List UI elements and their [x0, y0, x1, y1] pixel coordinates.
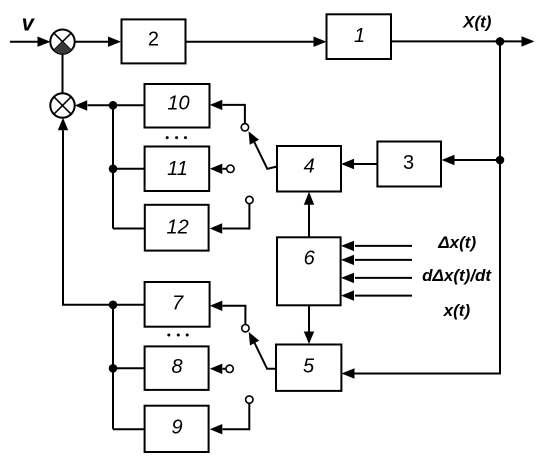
- node label delta x(t): [437, 233, 476, 252]
- wire bus to block 9 input: [113, 428, 145, 430]
- wire block 6 to block 5: [304, 305, 314, 344]
- switch arm from block 5: [249, 332, 276, 369]
- switch contact for block 10: [241, 124, 248, 131]
- wire input 2 to block 6: [341, 255, 412, 265]
- svg-text:Δx(t): Δx(t): [437, 233, 476, 252]
- wire block 8 output to bus: [113, 367, 145, 369]
- wire input 1 to block 6: [341, 241, 412, 251]
- summing junction S2: [50, 93, 74, 117]
- switch contact for block 9: [246, 396, 253, 403]
- ellipsis between block 10 and 11: [166, 136, 187, 139]
- wire right vertical feedback upper: [499, 41, 501, 160]
- svg-text:12: 12: [166, 217, 188, 239]
- svg-text:v: v: [22, 11, 36, 36]
- block 4: [277, 146, 341, 192]
- block 10: [145, 84, 210, 128]
- switch contact for block 12: [246, 196, 253, 203]
- wire contact to block 11: [210, 164, 227, 174]
- block 9: [145, 406, 209, 452]
- block 12: [145, 205, 209, 251]
- block 11: [145, 147, 210, 192]
- wire contact to block 10: [210, 100, 245, 124]
- wire input 4 to block 6: [341, 290, 412, 300]
- junction dot at block 3 takeoff: [496, 156, 505, 165]
- svg-text:3: 3: [403, 152, 414, 174]
- block 6: [277, 237, 341, 305]
- node label x(t): [443, 301, 471, 320]
- wire S2 to S1: [62, 54, 64, 94]
- block 1: [327, 14, 392, 59]
- svg-text:10: 10: [167, 93, 189, 115]
- wire contact to block 7: [210, 301, 246, 325]
- block 5: [276, 345, 341, 391]
- wire contact to block 8: [210, 364, 226, 374]
- wire contact to block 12: [210, 204, 250, 234]
- svg-text:9: 9: [171, 417, 182, 439]
- svg-text:7: 7: [172, 292, 184, 314]
- block 2: [122, 19, 186, 63]
- svg-text:8: 8: [171, 356, 182, 378]
- wire bus vertical lower: [112, 305, 114, 429]
- svg-text:dΔx(t)/dt: dΔx(t)/dt: [422, 266, 492, 285]
- switch contact for block 7: [242, 325, 249, 332]
- wire block 1 to output X(t): [391, 36, 535, 46]
- svg-text:X(t): X(t): [462, 13, 492, 32]
- junction dot bus at block 8 line: [109, 364, 118, 373]
- wire bus vertical upper: [112, 105, 114, 228]
- node label d delta x(t)/dt: [422, 266, 492, 285]
- junction dot bus at block 11 line: [109, 165, 118, 174]
- wire bus to block 12 input: [113, 228, 145, 230]
- ellipsis between block 7 and 8: [167, 334, 188, 337]
- svg-text:x(t): x(t): [443, 301, 471, 320]
- svg-text:1: 1: [354, 25, 365, 47]
- junction dot at X(t) takeoff: [496, 37, 505, 46]
- block 3: [377, 142, 441, 187]
- wire block 2 to block 1: [186, 37, 327, 47]
- wire junction to block 3: [442, 155, 501, 165]
- switch contact for block 8: [226, 365, 233, 372]
- node v label: [22, 11, 36, 36]
- wire block 6 to block 4: [304, 192, 314, 238]
- switch arm from block 4: [249, 131, 278, 169]
- svg-text:11: 11: [167, 158, 188, 180]
- junction dot lower bus at block 7 line: [109, 301, 118, 310]
- wire S1 to block 2: [75, 37, 122, 47]
- wire block 10 output to S2: [75, 100, 145, 110]
- svg-text:5: 5: [303, 356, 315, 378]
- block 7: [145, 282, 210, 327]
- svg-text:4: 4: [304, 156, 315, 178]
- summing junction S1 (comparator with inverted sector): [50, 30, 74, 54]
- svg-text:6: 6: [304, 247, 316, 269]
- wire block 11 output to bus: [113, 168, 145, 170]
- wire right vertical feedback lower into block 5: [342, 160, 501, 379]
- junction dot bus upper at block 10 line: [109, 101, 118, 110]
- wire input 3 to block 6: [341, 273, 412, 283]
- wire v input arrow: [10, 37, 51, 47]
- wire block 3 to block 4: [341, 159, 377, 169]
- switch contact for block 11: [227, 165, 234, 172]
- node X(t) label: [462, 13, 492, 32]
- wire contact to block 9: [210, 403, 250, 434]
- block 8: [145, 346, 209, 390]
- svg-text:2: 2: [148, 29, 159, 51]
- wire left bus from block 7 up into S2: [58, 118, 145, 305]
